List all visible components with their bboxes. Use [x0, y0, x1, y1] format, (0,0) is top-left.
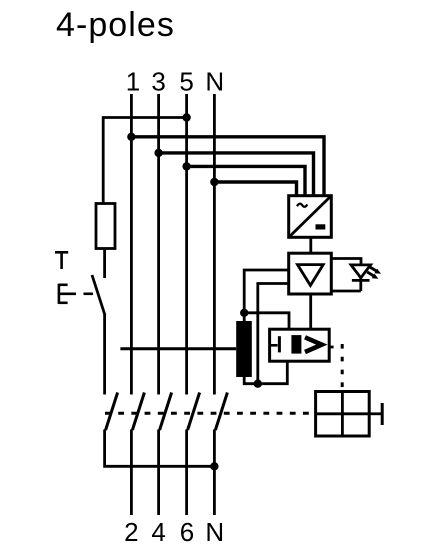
- mechanism handle: [369, 403, 382, 425]
- svg-text:2: 2: [124, 517, 138, 547]
- wire node A to CT winding top: [243, 313, 246, 322]
- main contact blade L5: [188, 393, 200, 431]
- node on L1: [127, 133, 135, 141]
- main contact blade L3: [160, 393, 172, 431]
- wire primary conductors through CT: [120, 347, 236, 350]
- test button actuator: [59, 284, 93, 304]
- svg-text:4: 4: [151, 517, 165, 547]
- node B junction: [254, 380, 262, 388]
- wire pole L5 upper: [185, 94, 188, 395]
- wire resistor to test contact: [103, 249, 106, 279]
- mechanical link dotted (coil to mechanism): [341, 344, 344, 392]
- wire converter to relay: [309, 237, 312, 253]
- wire bus from N to converter: [214, 182, 296, 196]
- mechanical link dashed (mechanism to contacts): [105, 412, 311, 415]
- wire pole L3 lower: [157, 430, 160, 516]
- wire CT winding bottom to node B and trip coil bottom: [244, 361, 287, 384]
- svg-text:1: 1: [126, 67, 140, 97]
- wire test branch return to N: [105, 430, 215, 467]
- svg-text:3: 3: [151, 67, 165, 97]
- node on L5 at test tap: [182, 113, 190, 121]
- wire node A to trip coil top: [244, 313, 289, 329]
- node on L3: [154, 149, 162, 157]
- wire relay upper-left to CT node A: [244, 270, 289, 313]
- main contact blade N: [215, 393, 227, 431]
- node on N: [210, 178, 218, 186]
- operating mechanism box: [316, 392, 370, 437]
- node A junction: [240, 309, 248, 317]
- wire relay to LED anode: [332, 259, 362, 266]
- test button label T: [55, 252, 68, 269]
- LED D1: [351, 265, 371, 291]
- wire relay lower-left down to node B: [258, 284, 289, 384]
- wire test branch top (from L5 to resistor): [103, 118, 186, 204]
- svg-text:6: 6: [180, 517, 194, 547]
- node on L5: [182, 162, 190, 170]
- wire test branch lower: [103, 315, 106, 395]
- test resistor R1: [96, 204, 115, 249]
- svg-text:4-poles: 4-poles: [56, 6, 175, 44]
- wire pole N lower: [213, 430, 216, 516]
- wire bus from L5 to converter: [187, 166, 305, 196]
- node on N return: [210, 462, 218, 470]
- svg-text:N: N: [205, 67, 224, 97]
- wire bus from L3 to converter: [159, 153, 314, 196]
- AC/DC converter U1 box: [289, 196, 332, 238]
- wire pole L5 lower: [185, 430, 188, 516]
- wire bus from L1 to converter: [131, 137, 324, 196]
- wire relay to trip coil: [309, 294, 312, 329]
- svg-text:5: 5: [179, 67, 193, 97]
- main contact blade test branch: [106, 393, 118, 431]
- wire LED cathode back to relay: [332, 290, 361, 293]
- trip coil U3 box I>: [270, 329, 334, 361]
- wire pole L1 lower: [130, 430, 133, 516]
- trip relay U2 box with triangle: [289, 253, 332, 294]
- LED light arrows: [367, 267, 381, 279]
- main contact blade L1: [132, 393, 144, 431]
- svg-text:N: N: [205, 517, 224, 547]
- wire pole L3 upper: [157, 94, 160, 395]
- current transformer CT winding bar: [236, 321, 252, 377]
- test contact blade: [92, 275, 105, 315]
- wire pole L1 upper: [130, 94, 133, 395]
- wire pole N upper: [213, 94, 216, 395]
